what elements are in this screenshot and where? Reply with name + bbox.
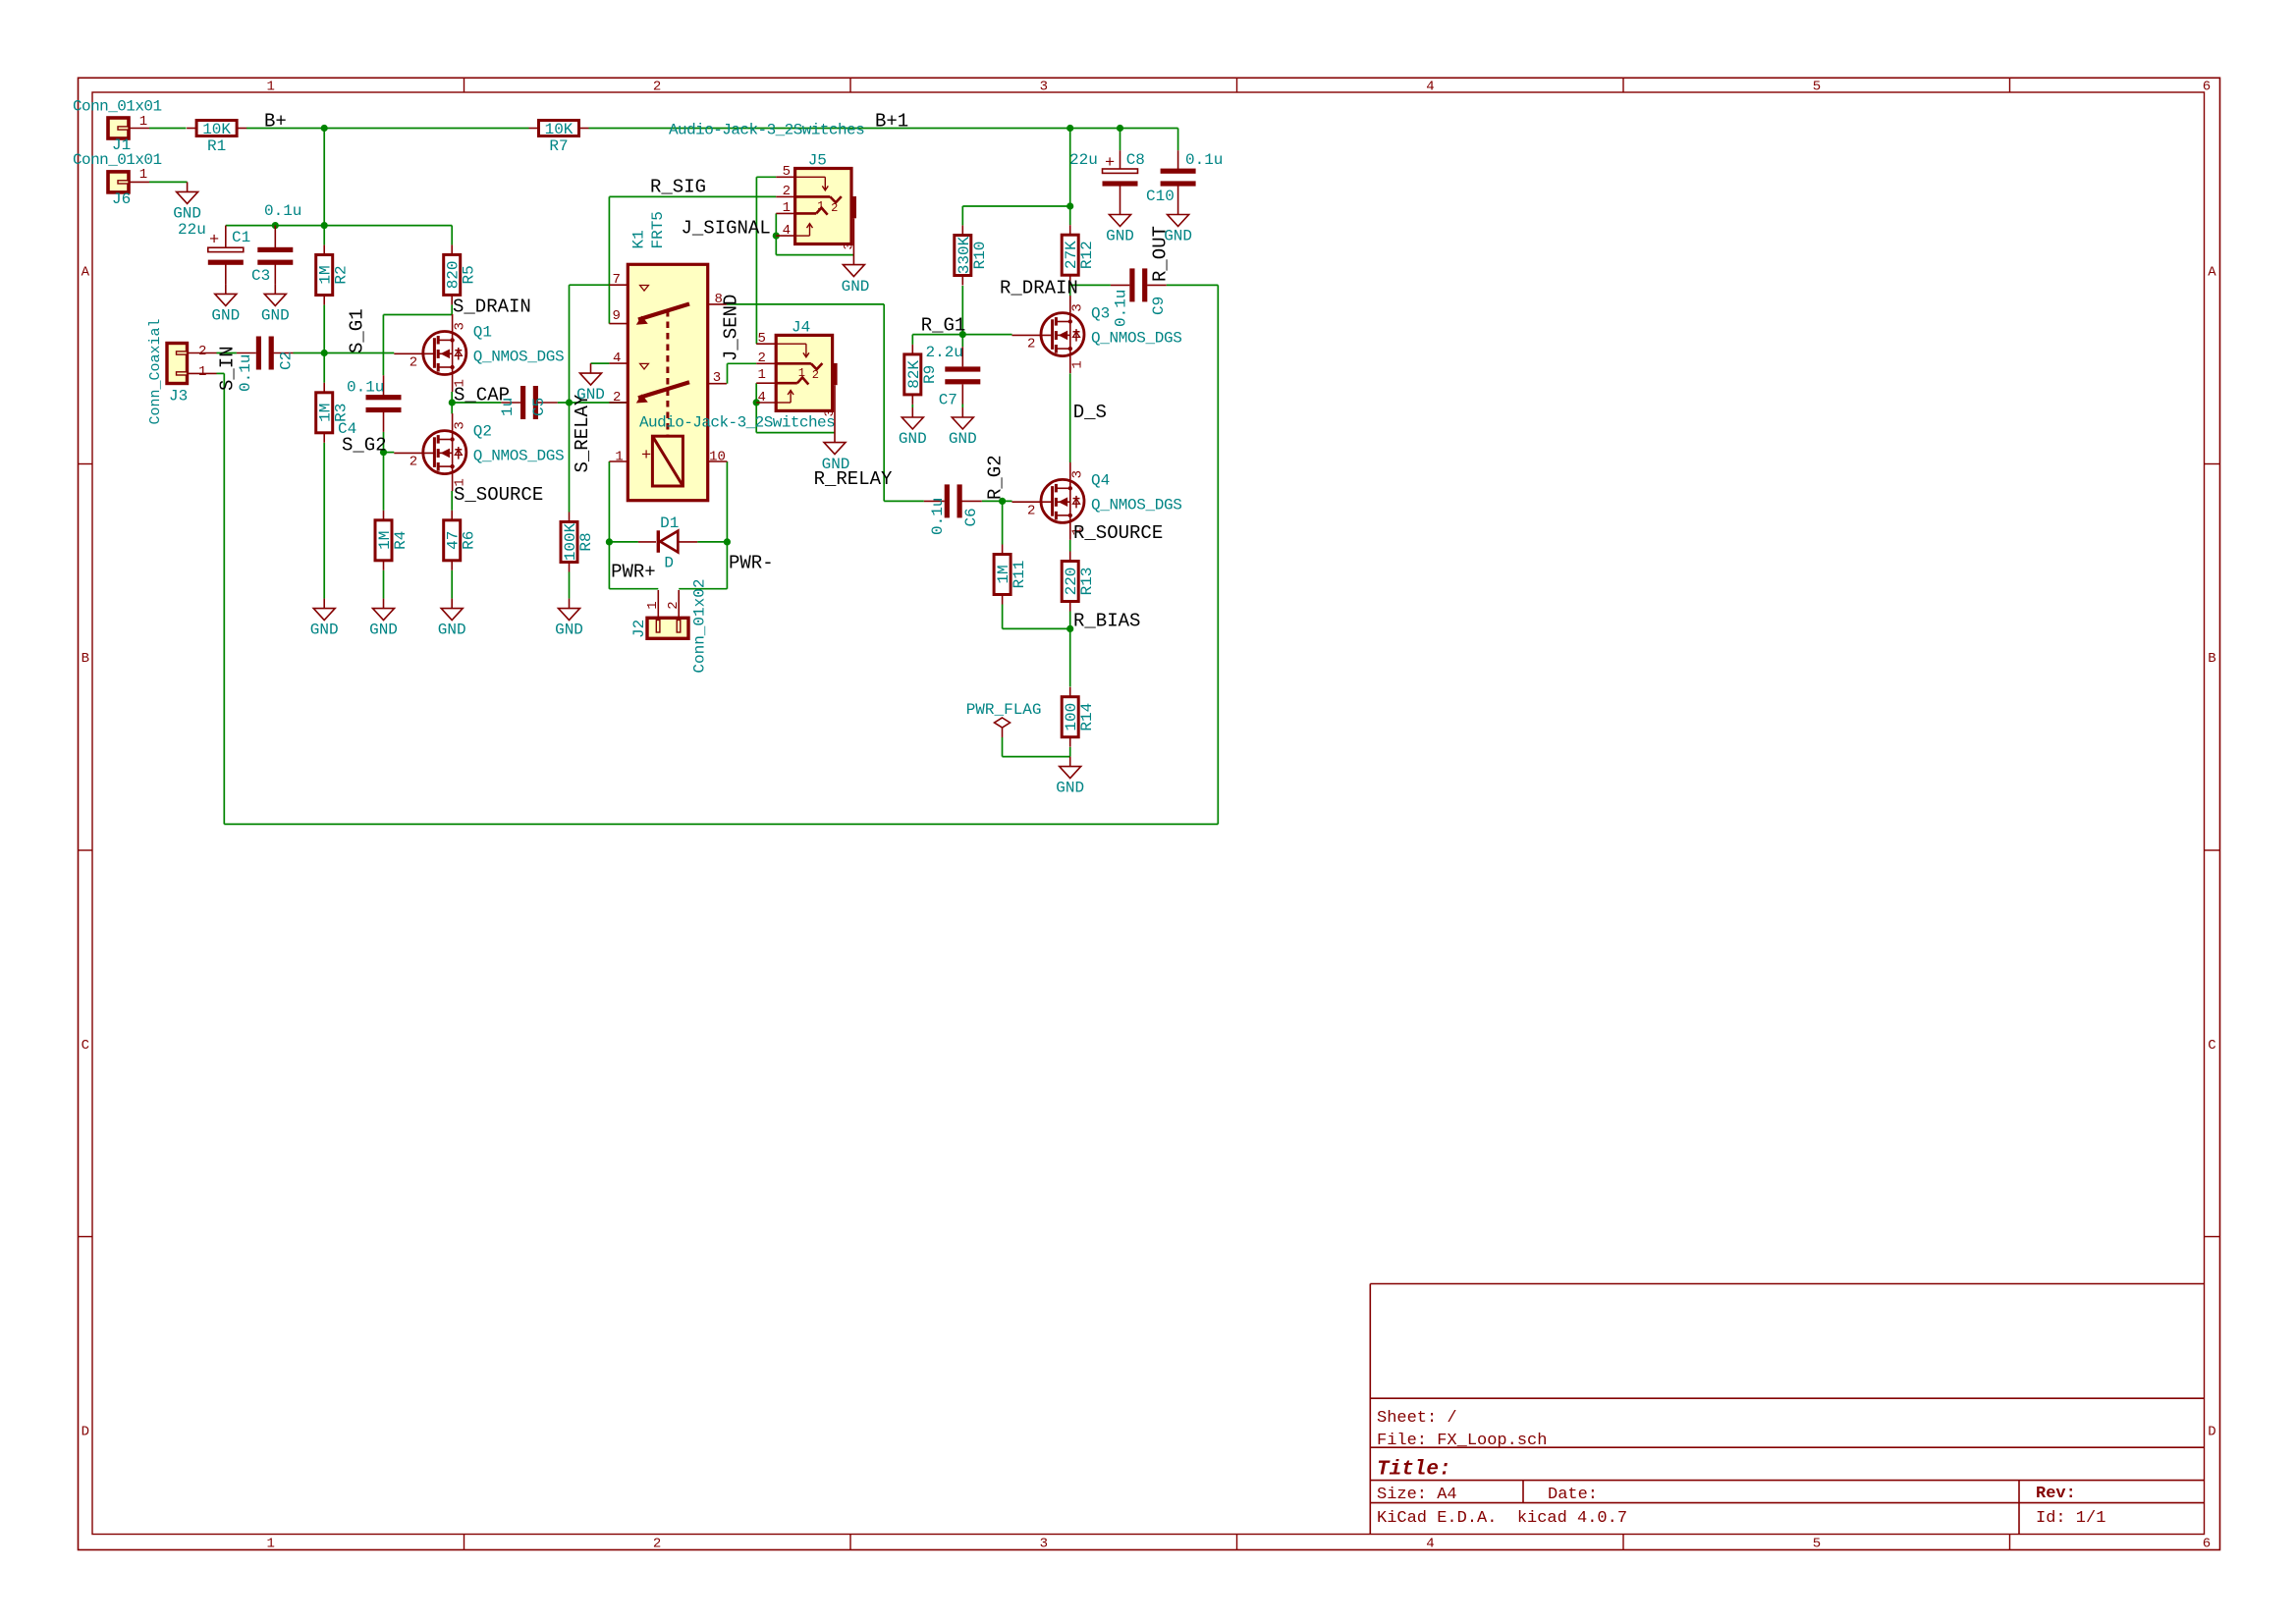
label S_DRAIN	[453, 297, 531, 318]
svg-text:4: 4	[613, 351, 621, 366]
svg-text:R7: R7	[549, 137, 568, 155]
svg-text:GND: GND	[369, 622, 398, 639]
wire K1 pin10 to PWR- rail	[679, 461, 727, 589]
svg-text:A: A	[2208, 265, 2216, 281]
svg-text:J6: J6	[112, 190, 131, 208]
relay K1	[609, 264, 727, 500]
label C1 plus	[209, 232, 219, 250]
svg-text:J_SEND: J_SEND	[721, 295, 742, 361]
wire B+1 drop to R10/R12 tee	[1069, 129, 1071, 207]
wire S_IN J3 to C2	[217, 352, 237, 354]
svg-text:GND: GND	[842, 278, 870, 296]
label C5 value 1u	[499, 398, 517, 416]
svg-text:GND: GND	[261, 306, 290, 324]
svg-text:4: 4	[783, 223, 791, 239]
svg-text:R13: R13	[1078, 568, 1096, 596]
svg-text:GND: GND	[899, 430, 927, 448]
svg-text:22u: 22u	[1069, 151, 1098, 169]
svg-text:GND: GND	[949, 430, 977, 448]
wire R_OUT vertical	[1217, 285, 1219, 824]
wire C9 to R_OUT corner	[1167, 284, 1219, 286]
wire B+1 rail R7 to C10 corner	[589, 128, 1178, 130]
node PWR+ junction D1 anode	[606, 538, 613, 545]
svg-text:2: 2	[410, 355, 417, 371]
wire D1 cathode stub	[697, 541, 727, 543]
svg-text:0.1u: 0.1u	[1185, 151, 1223, 169]
ground R8	[555, 599, 583, 639]
transistor Q1	[394, 314, 564, 392]
wire R_G1 row	[912, 334, 1011, 336]
svg-text:1: 1	[645, 601, 661, 609]
label J5 pin 2	[783, 184, 791, 199]
label J4 pin 4	[758, 390, 766, 406]
wire J4 pin1 to pin4 jog	[756, 383, 835, 432]
svg-text:PWR_FLAG: PWR_FLAG	[966, 701, 1042, 719]
wire R_BIAS to R14	[1069, 628, 1071, 686]
node tee junction	[1066, 202, 1073, 209]
label R_DRAIN	[1000, 278, 1078, 299]
transistor Q4	[1012, 462, 1182, 540]
svg-text:C1: C1	[232, 229, 250, 246]
svg-text:1: 1	[758, 367, 766, 383]
label C2 value 0.1u	[237, 354, 254, 392]
svg-text:R_OUT: R_OUT	[1149, 226, 1171, 282]
node S_G1 junction	[321, 350, 328, 356]
svg-text:J4: J4	[792, 319, 810, 337]
wire R2 bottom to S_IN wire	[323, 305, 325, 353]
wire J6 pin lead	[129, 181, 188, 183]
svg-text:B+1: B+1	[875, 111, 908, 133]
svg-text:2.2u: 2.2u	[926, 344, 963, 361]
label J1 value Conn_01x01	[73, 98, 162, 116]
svg-text:B: B	[2208, 651, 2215, 667]
svg-text:Size: A4: Size: A4	[1377, 1486, 1457, 1504]
wire Q1 source to S_CAP node	[451, 392, 453, 413]
svg-text:2: 2	[1027, 503, 1035, 518]
svg-text:1: 1	[198, 364, 206, 380]
svg-text:KiCad E.D.A. kicad 4.0.7: KiCad E.D.A. kicad 4.0.7	[1377, 1509, 1627, 1528]
svg-text:File: FX_Loop.sch: File: FX_Loop.sch	[1377, 1432, 1547, 1450]
svg-text:R4: R4	[392, 531, 410, 550]
svg-text:2: 2	[410, 455, 417, 470]
wire J_SEND K1 pin8 to R_RELAY corner	[727, 303, 884, 305]
svg-text:+: +	[209, 232, 219, 250]
label C5 ref	[530, 398, 548, 416]
svg-text:1: 1	[817, 199, 824, 213]
resistor R5	[444, 244, 478, 304]
svg-text:Rev:: Rev:	[2036, 1485, 2076, 1503]
svg-text:3: 3	[1070, 470, 1086, 478]
label PWR-	[729, 553, 774, 574]
label C8 value 22u	[1069, 151, 1098, 169]
label S_SOURCE	[454, 484, 543, 506]
svg-text:6: 6	[2203, 1537, 2211, 1552]
svg-text:R_G2: R_G2	[985, 455, 1007, 500]
svg-text:3: 3	[453, 322, 468, 330]
svg-text:Date:: Date:	[1548, 1486, 1598, 1504]
capacitor C10	[1161, 169, 1196, 187]
svg-text:PWR-: PWR-	[729, 553, 774, 574]
label J3 pin 2	[198, 344, 206, 359]
capacitor C2	[256, 337, 274, 370]
label R_SOURCE	[1073, 522, 1163, 544]
svg-text:2: 2	[198, 344, 206, 359]
label C1 ref	[232, 229, 250, 246]
svg-text:C9: C9	[1150, 297, 1168, 315]
wire bottom return rail	[224, 823, 1218, 825]
label D1 ref	[660, 514, 679, 532]
svg-text:Conn_01x01: Conn_01x01	[73, 151, 162, 169]
capacitor C3	[257, 247, 293, 265]
wire C6 pins	[924, 500, 982, 502]
svg-text:0.1u: 0.1u	[264, 202, 301, 220]
svg-text:R6: R6	[461, 531, 478, 550]
label C10 ref	[1146, 188, 1175, 205]
label J2 pin 2	[666, 601, 682, 609]
svg-text:2: 2	[758, 351, 766, 366]
resistor R9	[904, 345, 939, 405]
svg-text:0.1u: 0.1u	[929, 498, 947, 535]
wire left return riser to J3	[217, 373, 225, 824]
svg-text:S_IN: S_IN	[217, 346, 239, 391]
resistor R10	[955, 226, 989, 286]
wire Q3 source to Q4 drain D_S	[1069, 373, 1071, 462]
svg-text:R14: R14	[1078, 703, 1096, 731]
wire Q2 source to R6	[451, 491, 453, 511]
svg-text:4: 4	[1426, 80, 1434, 95]
node R_G2 junction	[999, 498, 1006, 505]
capacitor C6	[945, 484, 962, 517]
svg-text:Q2: Q2	[473, 423, 492, 441]
label R_OUT	[1149, 226, 1171, 282]
label C6 ref	[962, 508, 980, 526]
svg-text:+: +	[1105, 154, 1115, 173]
label D1 value D	[664, 555, 674, 572]
label C3 ref	[251, 267, 270, 285]
label C8 ref	[1126, 151, 1145, 169]
label J4 pin 5	[758, 331, 766, 347]
label R_G1	[921, 315, 966, 337]
svg-text:C5: C5	[530, 398, 548, 416]
svg-text:J5: J5	[808, 152, 827, 170]
svg-text:6: 6	[2203, 80, 2211, 95]
label J3 value Conn_Coaxial	[147, 318, 164, 424]
node B+ junction	[321, 125, 328, 132]
transistor Q3	[1012, 296, 1182, 373]
wire C2 pins	[237, 352, 294, 354]
label C6 value 0.1u	[929, 498, 947, 535]
svg-text:1: 1	[266, 80, 274, 95]
label K1 ref	[630, 230, 648, 248]
svg-text:22u: 22u	[178, 221, 206, 239]
capacitor C7	[945, 366, 980, 384]
wire Q4 source to R13	[1069, 540, 1071, 552]
wire S_RELAY vertical up to K1 pin7 row	[570, 285, 610, 403]
node B+1 junction at R12 drop	[1066, 125, 1073, 132]
label C7 ref	[939, 392, 957, 409]
node S_RELAY junction	[566, 399, 573, 406]
ground R3	[310, 599, 339, 639]
label C2 ref	[278, 352, 296, 370]
svg-text:Conn_01x01: Conn_01x01	[73, 98, 162, 116]
svg-text:C: C	[2208, 1038, 2215, 1054]
svg-text:1: 1	[139, 167, 147, 183]
wire B+ rail J1 to R1	[149, 128, 187, 130]
wire R_DRAIN to C9	[1070, 284, 1111, 286]
wire R14 bottom to GND rail	[1003, 747, 1070, 757]
svg-text:3: 3	[1070, 303, 1086, 311]
wire S_RELAY down to R8	[569, 403, 571, 513]
wire K1 pin3 jog up to J4 pin2	[728, 363, 757, 383]
wire S_IN C2 to junction to Q1 gate	[294, 352, 395, 354]
svg-text:1: 1	[783, 200, 791, 216]
svg-text:Audio-Jack-3_2Switches: Audio-Jack-3_2Switches	[639, 414, 835, 432]
svg-text:S_SOURCE: S_SOURCE	[454, 484, 543, 506]
svg-text:PWR+: PWR+	[611, 562, 656, 583]
ground J4	[822, 443, 850, 473]
svg-text:D: D	[664, 555, 674, 572]
svg-text:1: 1	[1070, 360, 1086, 368]
label C8 plus	[1105, 154, 1115, 173]
svg-text:Conn_01x02: Conn_01x02	[691, 579, 709, 674]
resistor R12	[1062, 225, 1096, 285]
label R_RELAY	[814, 468, 893, 490]
label C10 value 0.1u	[1185, 151, 1223, 169]
svg-text:3: 3	[713, 370, 721, 386]
svg-text:10K: 10K	[202, 121, 231, 138]
ground R6	[438, 599, 466, 639]
label S_IN	[217, 346, 239, 391]
label J6 pin 1	[139, 167, 147, 183]
transistor Q2	[394, 413, 564, 491]
svg-text:R_DRAIN: R_DRAIN	[1000, 278, 1078, 299]
svg-text:D_S: D_S	[1073, 402, 1107, 423]
wire C5 pins	[501, 402, 557, 404]
svg-text:7: 7	[613, 272, 621, 288]
wire C3 pins	[274, 226, 276, 285]
wire bypass rail C1 to R5 corner	[226, 226, 452, 245]
wire C9 pins	[1111, 284, 1167, 286]
label C9 ref	[1150, 297, 1168, 315]
node junction R2 top	[321, 222, 328, 229]
wire S_CAP to C5	[452, 402, 501, 404]
resistor R11	[994, 545, 1028, 605]
svg-text:Title:: Title:	[1377, 1459, 1451, 1482]
svg-text:Q_NMOS_DGS: Q_NMOS_DGS	[1091, 330, 1182, 348]
wire R13 bottom to R_BIAS node	[1069, 612, 1071, 629]
wire C7 pins	[961, 347, 963, 404]
wire D1 anode stub	[609, 541, 638, 543]
svg-text:3: 3	[1040, 1537, 1048, 1552]
label J6 ref	[112, 190, 131, 208]
svg-text:GND: GND	[576, 386, 605, 404]
connector J2	[647, 590, 688, 638]
svg-text:C2: C2	[278, 352, 296, 370]
label J2 ref	[630, 620, 648, 638]
svg-text:R_RELAY: R_RELAY	[814, 468, 893, 490]
wire R9 drop	[911, 335, 913, 345]
svg-text:2: 2	[666, 601, 682, 609]
wire R_RELAY to C6	[884, 500, 924, 502]
node R_BIAS junction	[1066, 625, 1073, 632]
svg-text:4: 4	[1426, 1537, 1434, 1552]
ground C7	[949, 407, 977, 448]
svg-text:Q_NMOS_DGS: Q_NMOS_DGS	[473, 448, 565, 465]
wire C5 to S_RELAY node to K1 pin2	[558, 402, 629, 404]
wire C4 pins	[383, 375, 385, 432]
label S_G2	[342, 435, 387, 457]
svg-text:2: 2	[831, 201, 838, 215]
wire S_DRAIN R5 to corner	[383, 304, 452, 314]
svg-text:1: 1	[266, 1537, 274, 1552]
ground J6	[173, 182, 201, 222]
label J2 pin 1	[645, 601, 661, 609]
wire R3 junction to top	[323, 353, 325, 383]
label J1 pin 1	[139, 114, 147, 130]
svg-text:1: 1	[798, 366, 805, 380]
svg-text:R1: R1	[207, 137, 226, 155]
svg-text:S_RELAY: S_RELAY	[572, 394, 593, 472]
wire J5 pin1 to pin4 jog	[776, 213, 853, 254]
svg-text:S_G1: S_G1	[347, 308, 368, 353]
svg-text:2: 2	[1027, 337, 1035, 352]
svg-text:Q_NMOS_DGS: Q_NMOS_DGS	[473, 349, 565, 366]
svg-text:R8: R8	[577, 532, 595, 551]
wire R_G2 C6 to Q4 gate	[982, 500, 1012, 502]
svg-text:GND: GND	[555, 622, 583, 639]
label J4 pin 3	[822, 409, 837, 417]
connector J6	[108, 172, 129, 192]
ground C1	[211, 284, 240, 324]
diode D1	[638, 530, 697, 553]
svg-text:Q3: Q3	[1091, 305, 1110, 323]
svg-text:GND: GND	[1056, 780, 1084, 797]
label C7 value 2.2u	[926, 344, 963, 361]
wire J1 pin lead	[129, 128, 149, 130]
node junction C3 top	[272, 222, 279, 229]
capacitor C8	[1103, 169, 1138, 187]
wire R11 bottom to R_BIAS rail	[1003, 605, 1070, 629]
node S_G2 junction	[380, 449, 387, 456]
jack J5	[776, 169, 856, 244]
svg-text:R10: R10	[971, 242, 989, 270]
svg-text:R9: R9	[921, 365, 939, 384]
wire R6 bottom to GND	[451, 570, 453, 599]
label Audio-Jack value K1 area	[639, 414, 835, 432]
resistor R13	[1062, 552, 1096, 612]
svg-text:1u: 1u	[499, 398, 517, 416]
jack J4	[756, 335, 837, 410]
ground C10	[1164, 205, 1192, 245]
label R_SIG	[650, 177, 706, 198]
svg-text:2: 2	[613, 390, 621, 406]
wire tee to R12	[1069, 206, 1071, 225]
label J4 ref	[792, 319, 810, 337]
svg-text:A: A	[82, 265, 90, 281]
ground R9	[899, 407, 927, 448]
svg-text:Q4: Q4	[1091, 471, 1110, 489]
wire R_RELAY vertical	[883, 304, 885, 502]
svg-text:5: 5	[758, 331, 766, 347]
label J5 ref	[808, 152, 827, 170]
resistor R6	[444, 511, 478, 570]
wire K1 pin1 to PWR+ rail	[609, 461, 658, 589]
label J5 value Audio-Jack-3_2Switches	[669, 122, 864, 139]
svg-text:2: 2	[653, 1537, 661, 1552]
svg-text:3: 3	[1040, 80, 1048, 95]
svg-text:R_SOURCE: R_SOURCE	[1073, 522, 1163, 544]
svg-text:R11: R11	[1011, 561, 1028, 589]
svg-text:B: B	[82, 651, 89, 667]
svg-text:C10: C10	[1146, 188, 1175, 205]
svg-text:0.1u: 0.1u	[347, 379, 384, 397]
ground C8	[1106, 205, 1134, 245]
label J5 pin 4	[783, 223, 791, 239]
svg-text:GND: GND	[1106, 228, 1134, 245]
svg-text:9: 9	[613, 308, 621, 324]
svg-text:B+: B+	[264, 111, 287, 133]
svg-text:2: 2	[812, 368, 819, 382]
svg-text:C3: C3	[251, 267, 270, 285]
svg-text:GND: GND	[211, 306, 240, 324]
svg-text:GND: GND	[310, 622, 339, 639]
svg-text:R_SIG: R_SIG	[650, 177, 706, 198]
label J4 pin 2	[758, 351, 766, 366]
svg-text:3: 3	[453, 421, 468, 429]
label C3 value 0.1u	[264, 202, 301, 220]
svg-text:0.1u: 0.1u	[237, 354, 254, 392]
wire tee to R10	[962, 206, 1069, 225]
svg-text:10K: 10K	[545, 121, 574, 138]
svg-text:+: +	[641, 447, 651, 465]
wire R2 top	[323, 226, 325, 245]
node R_G1 junction	[959, 331, 966, 338]
svg-text:R2: R2	[333, 265, 351, 284]
label J5 pin 3	[842, 243, 856, 250]
wire R_SIG K1 pin9 riser	[608, 196, 610, 323]
label J2 value Conn_01x02	[691, 579, 709, 674]
capacitor C4	[366, 395, 402, 412]
label J5 pin 1	[783, 200, 791, 216]
svg-text:0.1u: 0.1u	[1113, 290, 1130, 327]
wire J3 pin2 lead	[188, 352, 217, 354]
node J5 pin4 junction	[773, 233, 780, 240]
svg-text:1: 1	[615, 450, 623, 465]
wire S_G2 junction to Q2 gate	[384, 452, 395, 454]
capacitor C9	[1129, 268, 1147, 301]
svg-text:R_G1: R_G1	[921, 315, 966, 337]
label J3 ref	[169, 388, 188, 406]
capacitor C5	[520, 386, 538, 419]
label C1 value 22u	[178, 221, 206, 239]
label J6 value Conn_01x01	[73, 151, 162, 169]
wire C1 pins	[225, 226, 227, 285]
wire J4 sleeve to GND	[834, 385, 836, 442]
svg-text:Sheet: /: Sheet: /	[1377, 1409, 1457, 1428]
resistor R7	[529, 121, 589, 156]
svg-text:C7: C7	[939, 392, 957, 409]
svg-text:1: 1	[139, 114, 147, 130]
label J5 pin 5	[783, 164, 791, 180]
label J_SEND	[721, 295, 742, 361]
wire C10 pins	[1177, 150, 1179, 204]
svg-text:GND: GND	[173, 204, 201, 222]
svg-text:Q_NMOS_DGS: Q_NMOS_DGS	[1091, 496, 1182, 514]
svg-text:S_G2: S_G2	[342, 435, 387, 457]
svg-text:Conn_Coaxial: Conn_Coaxial	[147, 318, 164, 424]
label B+1	[875, 111, 908, 133]
label PWR+	[611, 562, 656, 583]
